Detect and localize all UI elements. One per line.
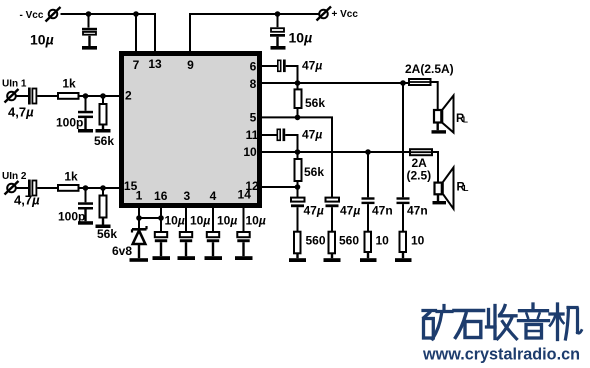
node junction at R2: [100, 93, 106, 99]
svg-text:47µ: 47µ: [302, 128, 322, 142]
wire input1 to C3: [16, 95, 28, 97]
capacitor C1 10u: [30, 14, 97, 50]
wire pin6: [260, 65, 277, 67]
wire C7 to pin8 line: [286, 66, 298, 83]
wire F2 to speaker2: [433, 152, 438, 182]
resistor R10 10: [395, 232, 425, 262]
svg-text:14: 14: [238, 188, 252, 202]
node junction pin16 link: [158, 215, 164, 221]
svg-text:2A(2.5A): 2A(2.5A): [405, 62, 454, 76]
wire pin16 down: [160, 206, 162, 232]
node junction pin5/R5: [295, 115, 301, 121]
wire R3 to pin15: [80, 187, 122, 189]
svg-text:560: 560: [339, 234, 359, 248]
watermark logo: [423, 304, 582, 340]
capacitor C15 10u: [205, 214, 238, 261]
fuse F2 2A(2.5): [407, 149, 434, 182]
svg-text:56k: 56k: [94, 134, 114, 148]
node junction pin12/R6/C9: [295, 184, 301, 190]
pin 2 label: [125, 89, 132, 103]
svg-text:- Vcc: - Vcc: [20, 10, 44, 21]
svg-text:10: 10: [411, 234, 425, 248]
capacitor C9 47u col1: [291, 187, 324, 231]
op-amp U1 IC body: [122, 54, 260, 206]
wire col4 from pin8 junction: [402, 83, 404, 197]
capacitor C12 47n: [397, 197, 428, 231]
svg-text:L: L: [463, 183, 468, 193]
svg-text:16: 16: [154, 189, 168, 203]
svg-text:4,7µ: 4,7µ: [14, 193, 40, 208]
svg-text:1: 1: [136, 189, 143, 203]
wire pin12 line: [260, 186, 298, 188]
svg-text:10µ: 10µ: [246, 214, 266, 228]
svg-text:8: 8: [250, 77, 257, 91]
svg-text:56k: 56k: [305, 96, 325, 110]
svg-text:47µ: 47µ: [302, 59, 322, 73]
wire C3 to R1: [37, 95, 58, 97]
pin 15 label: [124, 179, 138, 193]
node junction at C4: [83, 93, 89, 99]
svg-text:UIn 2: UIn 2: [2, 171, 27, 182]
svg-text:www.crystalradio.cn: www.crystalradio.cn: [422, 345, 580, 364]
node junction on -Vcc rail at pin7: [133, 11, 139, 17]
fuse F1 2A(2.5A): [403, 62, 454, 85]
zener diode D1 6v8: [112, 226, 148, 262]
node junction pin10/C8: [295, 149, 301, 155]
resistor R7 560: [289, 232, 326, 262]
node junction on -Vcc rail at C1: [86, 11, 92, 17]
wire -Vcc rail: [61, 14, 156, 52]
wire pin11: [260, 134, 277, 136]
node junction pin1 link: [136, 215, 142, 221]
wire pin8 output line: [260, 82, 403, 84]
svg-text:47n: 47n: [407, 204, 428, 218]
capacitor C13 10u: [153, 214, 185, 261]
svg-text:7: 7: [133, 58, 140, 72]
glyph shou: [487, 306, 517, 339]
pin 8 label: [250, 77, 257, 91]
node junction pin10/col3: [365, 149, 371, 155]
svg-text:9: 9: [187, 58, 194, 72]
capacitor C16 10u: [235, 214, 266, 261]
pin 5 label: [250, 110, 257, 124]
capacitor C7 47u: [278, 59, 323, 73]
svg-text:3: 3: [183, 189, 190, 203]
svg-text:47µ: 47µ: [340, 204, 360, 218]
svg-text:L: L: [463, 114, 468, 124]
svg-text:100p: 100p: [56, 116, 83, 130]
resistor R2 56k: [94, 96, 114, 148]
capacitor C4 100p: [56, 96, 93, 133]
svg-text:10µ: 10µ: [289, 30, 313, 46]
wire F1 to speaker1: [432, 82, 438, 109]
glyph shi: [454, 311, 484, 338]
wire pin3 down: [185, 206, 187, 232]
pin 3 label: [183, 189, 190, 203]
wire pin4 down: [212, 206, 214, 232]
svg-text:13: 13: [148, 57, 162, 71]
wire C5 to R3: [37, 187, 58, 189]
wire pin10 output line: [260, 151, 410, 153]
wire R1 to pin2: [80, 95, 122, 97]
svg-text:6: 6: [250, 60, 257, 74]
svg-text:4,7µ: 4,7µ: [8, 105, 34, 120]
resistor R3 1k: [58, 170, 79, 191]
wire pin7 drop: [135, 14, 137, 52]
resistor R1 1k: [58, 77, 79, 99]
pin 9 label: [187, 58, 194, 72]
svg-text:10µ: 10µ: [190, 214, 210, 228]
svg-text:10µ: 10µ: [30, 32, 54, 48]
svg-text:4: 4: [210, 189, 217, 203]
pin 10 label: [243, 145, 257, 159]
resistor R8 560: [324, 232, 360, 262]
svg-text:100p: 100p: [58, 210, 85, 224]
node junction pin8/C7: [295, 80, 301, 86]
resistor R6 56k: [295, 152, 325, 187]
svg-text:11: 11: [246, 128, 259, 142]
speaker LS2: [433, 168, 469, 209]
capacitor C5 4,7u: [14, 180, 40, 208]
svg-text:1k: 1k: [64, 170, 78, 184]
svg-text:560: 560: [306, 234, 326, 248]
node junction at R4: [100, 185, 106, 191]
wire pin1-pin16 link: [139, 217, 161, 219]
wire input2 to C5: [16, 187, 28, 189]
pin 7 label: [133, 58, 140, 72]
resistor R5 56k: [295, 83, 326, 117]
capacitor C14 10u: [178, 214, 211, 261]
capacitor C10 47u col2: [326, 198, 361, 231]
svg-text:10: 10: [376, 234, 390, 248]
svg-text:56k: 56k: [97, 227, 117, 241]
resistor R4 56k: [96, 188, 118, 241]
svg-text:47µ: 47µ: [304, 204, 324, 218]
svg-text:47n: 47n: [372, 204, 393, 218]
svg-text:6v8: 6v8: [112, 244, 132, 258]
svg-text:10µ: 10µ: [165, 214, 185, 228]
capacitor C3 4,7u: [8, 88, 36, 120]
svg-text:UIn 1: UIn 1: [2, 79, 27, 90]
wire pin5 line: [260, 117, 332, 197]
glyph kuang: [423, 306, 452, 340]
capacitor C11 47n: [362, 197, 393, 231]
svg-text:5: 5: [250, 110, 257, 124]
glyph yin: [519, 304, 549, 338]
watermark url text: [422, 345, 580, 364]
svg-text:+ Vcc: + Vcc: [332, 9, 359, 20]
svg-text:2: 2: [125, 89, 132, 103]
resistor R9 10: [360, 232, 389, 262]
terminal UIn 1: [2, 79, 27, 103]
wire col3 from pin10 line: [367, 152, 369, 197]
wire C8 to pin10 line: [285, 135, 297, 152]
pin 6 label: [250, 60, 257, 74]
pin 14 label: [238, 188, 252, 202]
capacitor C2 10u: [270, 14, 312, 50]
pin 13 label: [148, 57, 162, 71]
svg-text:(2.5): (2.5): [407, 169, 432, 183]
pin 12 label: [245, 179, 259, 193]
node junction on +Vcc rail at C2: [275, 11, 281, 17]
terminal -Vcc: [20, 7, 61, 22]
pin 1 label: [136, 189, 143, 203]
terminal UIn 2: [2, 171, 27, 195]
wire +Vcc rail and pin9 drop: [190, 14, 319, 52]
glyph ji: [550, 304, 582, 340]
pin 16 label: [154, 189, 168, 203]
node junction pin8/col4/F1: [400, 80, 406, 86]
pin 11 label: [246, 128, 259, 142]
svg-text:10: 10: [243, 145, 257, 159]
capacitor C6 100p: [58, 188, 93, 225]
wire pin1 down: [138, 206, 140, 229]
capacitor C8 47u: [277, 128, 322, 142]
pin 4 label: [210, 189, 217, 203]
svg-text:56k: 56k: [304, 165, 324, 179]
terminal +Vcc: [317, 7, 359, 21]
node junction at C6: [83, 185, 89, 191]
svg-text:1k: 1k: [62, 77, 76, 91]
wire pin14 down: [243, 206, 245, 232]
svg-text:10µ: 10µ: [217, 214, 237, 228]
speaker LS1: [432, 96, 468, 134]
